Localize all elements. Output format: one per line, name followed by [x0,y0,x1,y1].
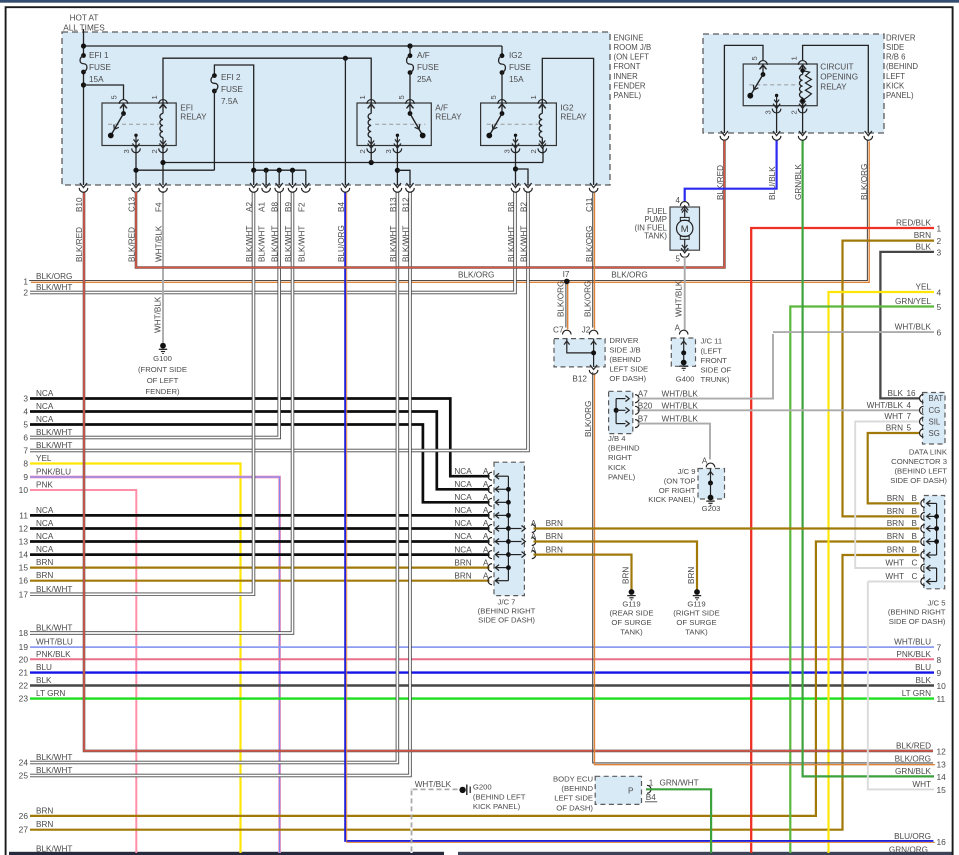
svg-text:15A: 15A [89,75,104,84]
svg-text:KICK: KICK [886,81,905,90]
svg-text:J2: J2 [582,326,591,335]
svg-text:(BEHIND: (BEHIND [608,444,640,453]
svg-text:3: 3 [502,149,511,153]
svg-text:GRN/ORG: GRN/ORG [889,846,928,855]
svg-text:BRN: BRN [887,546,904,555]
svg-text:A: A [483,506,489,515]
svg-text:BLK/RED: BLK/RED [75,227,84,262]
svg-text:WHT/BLU: WHT/BLU [36,638,73,647]
svg-text:EFI: EFI [180,103,193,112]
svg-text:SIDE OF: SIDE OF [701,366,732,375]
svg-text:DRIVER: DRIVER [886,33,916,42]
svg-text:INNER: INNER [614,72,639,81]
svg-text:BRN: BRN [887,519,904,528]
svg-text:KICK PANEL): KICK PANEL) [473,802,521,811]
svg-text:10: 10 [937,681,947,691]
svg-text:NCA: NCA [36,415,54,424]
svg-text:B12: B12 [572,375,587,384]
svg-text:(LEFT: (LEFT [701,346,723,355]
svg-text:LEFT: LEFT [886,72,905,81]
svg-text:1: 1 [649,779,654,788]
svg-text:1: 1 [937,224,942,234]
svg-text:BRN: BRN [546,519,563,528]
svg-text:17: 17 [19,589,29,599]
svg-text:A: A [531,519,537,528]
svg-text:A2: A2 [245,202,254,212]
svg-text:CG: CG [929,406,941,415]
svg-text:3: 3 [23,394,28,404]
svg-text:B: B [912,532,918,541]
svg-text:GRN/BLK: GRN/BLK [895,767,931,776]
svg-text:HOT AT: HOT AT [70,14,99,23]
svg-text:7: 7 [907,412,912,421]
svg-text:27: 27 [19,825,29,835]
svg-text:B7: B7 [638,415,648,424]
svg-text:5: 5 [907,424,912,433]
svg-text:C: C [912,559,918,568]
svg-text:BRN: BRN [887,532,904,541]
svg-text:GRN/BLK: GRN/BLK [794,164,803,200]
svg-text:OF DASH): OF DASH) [609,374,646,383]
svg-text:(BEHIND: (BEHIND [886,62,918,71]
svg-text:BLK/WHT: BLK/WHT [271,226,280,262]
svg-text:BRN: BRN [914,231,931,240]
svg-text:G119: G119 [622,599,640,608]
svg-text:SIDE OF DASH): SIDE OF DASH) [478,615,535,624]
svg-text:G100: G100 [153,354,172,363]
svg-text:TANK): TANK) [644,232,667,241]
svg-text:25: 25 [19,771,29,781]
svg-text:21: 21 [19,668,29,678]
svg-text:BLU: BLU [36,663,52,672]
svg-text:J/C 5: J/C 5 [928,598,946,607]
svg-text:BLK/WHT: BLK/WHT [284,226,293,262]
svg-text:B8: B8 [507,202,516,212]
svg-text:FUSE: FUSE [509,63,531,72]
svg-text:BLU/ORG: BLU/ORG [894,832,931,841]
svg-text:7: 7 [23,446,28,456]
svg-text:6: 6 [937,328,942,338]
svg-text:BRN: BRN [546,532,563,541]
svg-text:7.5A: 7.5A [221,97,238,106]
svg-text:BLK/WHT: BLK/WHT [36,441,72,450]
svg-text:2: 2 [358,149,367,153]
svg-text:ROOM J/B: ROOM J/B [614,43,652,52]
svg-text:PNK/BLK: PNK/BLK [896,650,931,659]
svg-text:A1: A1 [258,202,267,212]
svg-text:PNK: PNK [36,481,53,490]
svg-text:FENDER: FENDER [614,81,646,90]
svg-text:5: 5 [23,420,28,430]
svg-text:TRUNK): TRUNK) [701,375,730,384]
svg-text:EFI 2: EFI 2 [221,73,241,82]
svg-text:J/C 7: J/C 7 [498,598,516,607]
svg-text:BLK/ORG: BLK/ORG [611,271,647,280]
svg-text:11: 11 [937,694,946,704]
svg-text:A: A [483,467,489,476]
svg-text:EFI 1: EFI 1 [89,51,109,60]
svg-text:J/B 4: J/B 4 [608,434,626,443]
svg-text:WHT: WHT [884,412,903,421]
svg-text:5: 5 [750,56,759,60]
svg-text:B20: B20 [638,401,653,410]
svg-text:2: 2 [23,288,28,298]
svg-text:5: 5 [489,95,498,99]
svg-text:BLK: BLK [916,676,932,685]
svg-text:BLK/RED: BLK/RED [896,741,931,750]
svg-text:BLK/ORG: BLK/ORG [458,271,494,280]
svg-text:A/F: A/F [435,103,448,112]
svg-text:C: C [912,572,918,581]
svg-text:PANEL): PANEL) [614,91,642,100]
svg-text:GRN/WHT: GRN/WHT [660,779,699,788]
svg-text:BRN: BRN [546,545,563,554]
svg-text:9: 9 [937,668,942,678]
svg-text:B12: B12 [402,197,411,212]
svg-text:SIDE OF DASH): SIDE OF DASH) [889,617,946,626]
svg-text:PNK/BLK: PNK/BLK [36,650,71,659]
svg-text:2: 2 [529,149,538,153]
svg-text:BLK/ORG: BLK/ORG [36,272,72,281]
svg-text:CIRCUIT: CIRCUIT [820,63,853,72]
svg-text:RELAY: RELAY [180,113,207,122]
svg-text:16: 16 [907,389,917,398]
svg-text:G400: G400 [676,375,695,384]
svg-text:A: A [483,545,489,554]
svg-text:23: 23 [19,694,29,704]
svg-text:PANEL): PANEL) [886,91,914,100]
svg-text:BRN: BRN [687,567,696,584]
svg-text:WHT/BLK: WHT/BLK [155,225,164,262]
svg-text:WHT/BLK: WHT/BLK [662,415,699,424]
svg-text:KICK: KICK [608,463,627,472]
svg-text:I7: I7 [563,270,570,279]
svg-text:NCA: NCA [454,467,472,476]
svg-text:FENDER): FENDER) [145,387,180,396]
svg-text:(BEHIND RIGHT: (BEHIND RIGHT [478,607,536,616]
svg-text:LEFT SIDE: LEFT SIDE [609,365,648,374]
svg-text:B8: B8 [271,202,280,212]
svg-text:A/F: A/F [417,51,430,60]
svg-text:BLK: BLK [36,676,52,685]
svg-text:BLK/WHT: BLK/WHT [36,766,72,775]
svg-text:CONNECTOR 3: CONNECTOR 3 [891,457,947,466]
svg-text:LT GRN: LT GRN [36,689,65,698]
svg-text:13: 13 [937,759,947,769]
svg-text:RELAY: RELAY [820,83,847,92]
svg-text:6: 6 [23,433,28,443]
svg-text:G203: G203 [702,504,721,513]
svg-text:B4: B4 [337,202,346,212]
svg-text:(BEHIND RIGHT: (BEHIND RIGHT [888,608,946,617]
svg-text:WHT/BLK: WHT/BLK [662,390,699,399]
svg-text:OF SURGE: OF SURGE [611,618,651,627]
svg-text:13: 13 [19,537,29,547]
svg-text:RELAY: RELAY [435,113,462,122]
svg-text:5: 5 [110,95,119,99]
svg-text:19: 19 [19,642,29,652]
svg-text:LT GRN: LT GRN [902,689,931,698]
svg-text:9: 9 [23,472,28,482]
svg-text:A: A [483,571,489,580]
svg-text:LEFT SIDE: LEFT SIDE [554,794,593,803]
svg-text:DATA LINK: DATA LINK [909,447,948,456]
svg-text:4: 4 [676,196,681,205]
svg-text:NCA: NCA [36,532,54,541]
svg-text:16: 16 [937,837,947,847]
svg-text:BLK/ORG: BLK/ORG [584,401,593,437]
svg-text:YEL: YEL [916,283,932,292]
svg-text:8: 8 [23,459,28,469]
svg-text:(ON TOP: (ON TOP [664,477,696,486]
svg-text:WHT/BLK: WHT/BLK [867,401,904,410]
svg-text:BLK/WHT: BLK/WHT [36,624,72,633]
svg-text:BRN: BRN [36,558,53,567]
svg-text:(BEHIND: (BEHIND [609,355,641,364]
svg-text:NCA: NCA [454,532,472,541]
svg-text:A: A [483,532,489,541]
svg-text:BRN: BRN [36,571,53,580]
svg-text:BRN: BRN [887,507,904,516]
svg-text:16: 16 [19,576,29,586]
svg-text:BRN: BRN [622,567,631,584]
svg-text:1: 1 [789,56,798,60]
svg-text:(ON LEFT: (ON LEFT [614,53,650,62]
svg-text:BRN: BRN [454,558,471,567]
svg-text:RED/BLK: RED/BLK [896,219,932,228]
svg-text:22: 22 [19,681,29,691]
svg-text:3: 3 [937,247,942,257]
svg-text:SIDE OF DASH): SIDE OF DASH) [890,476,947,485]
svg-text:B: B [912,546,918,555]
svg-text:BLK: BLK [916,242,932,251]
svg-text:A: A [483,558,489,567]
svg-text:RIGHT: RIGHT [608,453,632,462]
svg-text:GRN/YEL: GRN/YEL [895,297,931,306]
svg-text:WHT/BLK: WHT/BLK [675,280,684,317]
svg-text:18: 18 [19,628,29,638]
svg-text:4: 4 [907,401,912,410]
svg-text:1: 1 [150,95,159,99]
svg-text:YEL: YEL [36,454,52,463]
svg-text:B2: B2 [520,202,529,212]
svg-text:M: M [681,224,689,235]
svg-text:A: A [483,493,489,502]
svg-text:SIL: SIL [929,417,941,426]
svg-text:BLK/WHT: BLK/WHT [389,226,398,262]
svg-text:PNK/BLU: PNK/BLU [36,468,71,477]
svg-text:2: 2 [937,236,942,246]
svg-text:ALL TIMES: ALL TIMES [63,24,105,33]
svg-text:NCA: NCA [454,519,472,528]
svg-text:B: B [912,494,918,503]
svg-text:BLK/WHT: BLK/WHT [297,226,306,262]
svg-text:1: 1 [358,95,367,99]
svg-text:NCA: NCA [36,506,54,515]
svg-text:RELAY: RELAY [560,113,587,122]
svg-text:WHT: WHT [885,559,904,568]
svg-text:BLK/WHT: BLK/WHT [36,585,72,594]
svg-text:BLK/WHT: BLK/WHT [36,845,72,854]
svg-text:BLK/ORG: BLK/ORG [860,164,869,200]
svg-text:14: 14 [937,772,947,782]
svg-text:B4: B4 [646,793,656,802]
svg-text:SIDE J/B: SIDE J/B [609,345,640,354]
svg-text:WHT/BLU: WHT/BLU [894,638,931,647]
svg-text:(BEHIND LEFT: (BEHIND LEFT [473,792,526,801]
svg-text:OF SURGE: OF SURGE [676,618,716,627]
svg-text:SG: SG [929,429,940,438]
svg-text:26: 26 [19,811,29,821]
svg-text:NCA: NCA [36,545,54,554]
svg-text:WHT: WHT [912,780,931,789]
svg-text:BRN: BRN [36,806,53,815]
svg-text:25A: 25A [417,75,432,84]
svg-text:20: 20 [19,654,29,664]
svg-text:WHT: WHT [885,572,904,581]
svg-text:WHT/BLK: WHT/BLK [662,401,699,410]
svg-text:A: A [702,456,708,465]
svg-text:BLK/WHT: BLK/WHT [36,428,72,437]
svg-text:G119: G119 [687,599,705,608]
svg-text:J/C 9: J/C 9 [678,467,696,476]
svg-text:(BEHIND: (BEHIND [561,784,593,793]
svg-text:FRONT: FRONT [701,356,728,365]
svg-text:FUSE: FUSE [221,85,243,94]
svg-text:24: 24 [19,758,29,768]
svg-text:8: 8 [937,655,942,665]
svg-text:12: 12 [937,746,947,756]
svg-text:IG2: IG2 [560,103,574,112]
svg-text:(RIGHT SIDE: (RIGHT SIDE [673,609,719,618]
svg-text:NCA: NCA [454,545,472,554]
svg-text:BLK/WHT: BLK/WHT [258,226,267,262]
svg-text:A: A [483,519,489,528]
svg-text:OF RIGHT: OF RIGHT [659,486,696,495]
svg-text:A: A [531,532,537,541]
svg-text:3: 3 [763,110,772,114]
svg-text:G200: G200 [473,783,492,792]
svg-text:FUSE: FUSE [417,63,439,72]
svg-text:12: 12 [19,524,29,534]
svg-text:P: P [628,787,634,796]
svg-text:BLK/ORG: BLK/ORG [895,754,931,763]
svg-text:15: 15 [937,785,947,795]
svg-text:10: 10 [19,485,29,495]
svg-text:OPENING: OPENING [820,73,858,82]
svg-text:J/C 11: J/C 11 [701,337,723,346]
svg-text:BRN: BRN [887,494,904,503]
svg-text:(FRONT SIDE: (FRONT SIDE [138,365,187,374]
svg-text:3: 3 [384,149,393,153]
svg-text:15: 15 [19,563,29,573]
svg-text:BRN: BRN [454,571,471,580]
svg-text:A: A [531,545,537,554]
svg-text:A7: A7 [638,390,648,399]
svg-text:4: 4 [937,288,942,298]
svg-text:(BEHIND LEFT: (BEHIND LEFT [894,467,947,476]
svg-text:B10: B10 [75,197,84,212]
svg-text:B: B [912,519,918,528]
svg-text:BLK/WHT: BLK/WHT [36,753,72,762]
svg-text:WHT/BLK: WHT/BLK [895,323,932,332]
svg-text:B13: B13 [389,197,398,212]
svg-text:BLK/ORG: BLK/ORG [557,281,566,317]
svg-text:BLK/WHT: BLK/WHT [245,226,254,262]
svg-text:15A: 15A [509,75,524,84]
svg-text:7: 7 [937,643,942,653]
svg-text:NCA: NCA [36,389,54,398]
svg-text:BAT: BAT [929,394,944,403]
svg-text:PANEL): PANEL) [608,472,636,481]
svg-text:F4: F4 [155,202,164,212]
svg-text:NCA: NCA [454,480,472,489]
svg-text:NCA: NCA [36,402,54,411]
svg-text:ENGINE: ENGINE [614,33,644,42]
svg-text:OF DASH): OF DASH) [556,803,593,812]
svg-text:IG2: IG2 [509,51,523,60]
svg-text:C7: C7 [553,326,564,335]
svg-text:14: 14 [19,550,29,560]
svg-text:KICK PANEL): KICK PANEL) [648,495,696,504]
svg-text:F2: F2 [297,202,306,212]
svg-text:WHT/BLK: WHT/BLK [415,780,452,789]
svg-text:A: A [483,480,489,489]
svg-text:5: 5 [676,255,681,264]
svg-text:BRN: BRN [886,424,903,433]
svg-text:4: 4 [23,407,28,417]
svg-text:11: 11 [19,510,28,520]
svg-text:TANK): TANK) [685,628,708,637]
svg-text:R/B 6: R/B 6 [886,53,906,62]
svg-text:WHT/BLK: WHT/BLK [154,296,163,333]
svg-text:B9: B9 [284,202,293,212]
svg-text:A: A [675,324,681,333]
svg-text:3: 3 [122,149,131,153]
svg-text:BLU: BLU [915,663,931,672]
svg-text:BLU/ORG: BLU/ORG [337,225,346,262]
svg-text:BRN: BRN [36,820,53,829]
svg-text:NCA: NCA [36,519,54,528]
svg-text:BLK/ORG: BLK/ORG [584,281,593,317]
svg-text:2: 2 [150,149,159,153]
svg-text:BLK/WHT: BLK/WHT [402,226,411,262]
svg-text:1: 1 [23,276,28,286]
svg-text:BLK/WHT: BLK/WHT [36,283,72,292]
svg-text:2: 2 [789,110,798,114]
svg-text:B: B [912,507,918,516]
svg-text:FUSE: FUSE [89,63,111,72]
svg-text:5: 5 [397,95,406,99]
svg-text:DRIVER: DRIVER [609,336,638,345]
svg-text:5: 5 [937,302,942,312]
svg-text:SIDE: SIDE [886,43,904,52]
svg-text:(REAR SIDE: (REAR SIDE [610,609,654,618]
svg-text:BLK: BLK [888,389,904,398]
svg-text:BLK/WHT: BLK/WHT [507,226,516,262]
svg-text:FRONT: FRONT [614,62,641,71]
svg-text:TANK): TANK) [620,628,643,637]
svg-text:OF LEFT: OF LEFT [147,376,179,385]
svg-text:BODY ECU: BODY ECU [553,775,593,784]
svg-text:NCA: NCA [454,506,472,515]
svg-text:NCA: NCA [454,493,472,502]
svg-text:1: 1 [529,95,538,99]
svg-text:BLK/WHT: BLK/WHT [520,226,529,262]
